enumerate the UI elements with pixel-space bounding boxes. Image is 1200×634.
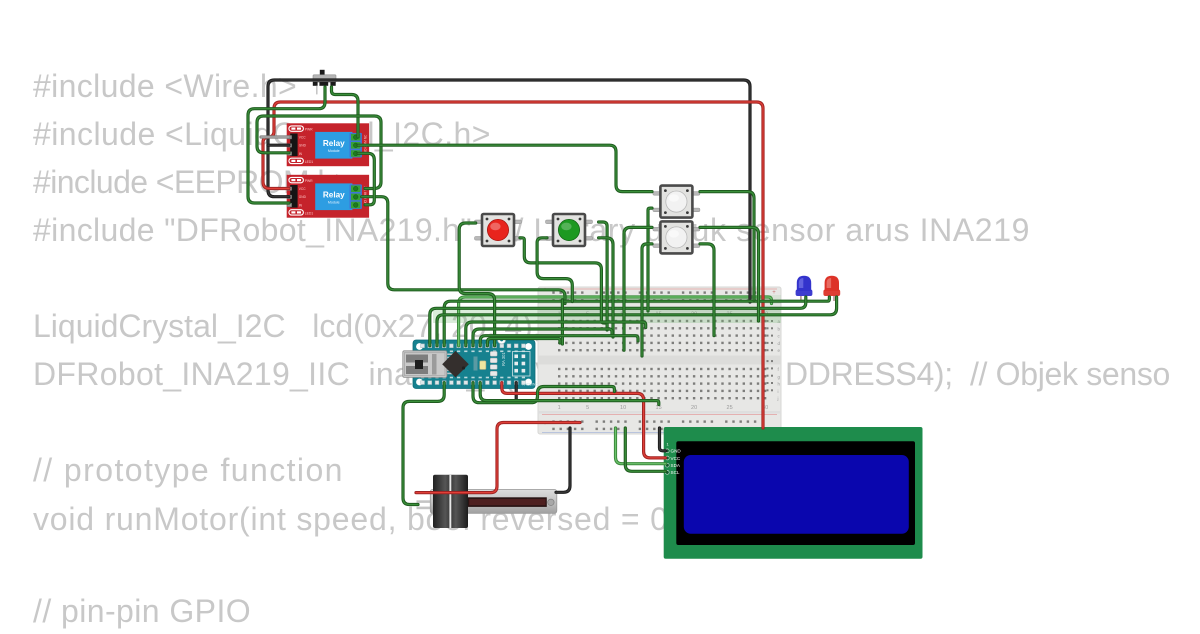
wire green relay1 IN loop to relay2 NO [257, 116, 381, 189]
wire green red-button left [459, 223, 494, 346]
wire green white-button2 left top [624, 227, 652, 350]
wire green relay1 COM to button1 [358, 145, 652, 191]
wire green switch right to relay1 NO [332, 87, 359, 137]
svg-text:VCC: VCC [671, 456, 681, 461]
wire gray relay1 VCC [261, 135, 289, 138]
svg-text:1: 1 [558, 405, 561, 411]
relay module K1 [287, 123, 369, 166]
wire green nano nest 2 [473, 329, 612, 346]
LED red LED2 [823, 276, 840, 301]
wire green nano to red LED anode [444, 297, 829, 346]
svg-text:Relay: Relay [323, 139, 345, 148]
pushbutton SW red [475, 214, 522, 246]
net highlight band 2 [538, 295, 781, 304]
wire green nano to pot left [403, 383, 444, 505]
svg-text:ARDUINO: ARDUINO [522, 383, 538, 387]
pushbutton SW white 1 [653, 186, 700, 218]
wire light-green nano to rail [459, 297, 772, 346]
svg-text:PWR: PWR [305, 179, 313, 183]
svg-text:10: 10 [620, 405, 626, 411]
wire black nano GND stub [515, 383, 518, 399]
svg-text:GND: GND [671, 449, 682, 454]
wire red nano 5V to LCD VCC [502, 383, 666, 458]
svg-text:RA 301: RA 301 [501, 352, 506, 366]
svg-text:LED1: LED1 [305, 212, 314, 216]
wire green white-button2 left bottom [642, 244, 652, 356]
svg-text:5: 5 [586, 405, 589, 411]
wire green green-button right bottom [599, 238, 613, 337]
wire green breadboard jumper [561, 300, 564, 344]
svg-text:Module: Module [328, 149, 340, 153]
svg-text:SDA: SDA [671, 463, 681, 468]
svg-text:Module: Module [328, 200, 340, 204]
wire green white-button1 right [700, 192, 754, 300]
svg-text:GND: GND [299, 144, 307, 148]
wire green nano nest 4 [487, 339, 560, 346]
wire green nano row f [473, 383, 614, 403]
relay module K2 [287, 175, 369, 218]
wire green white-button2 right top [700, 227, 759, 321]
wire black relay1 GND stub [268, 144, 289, 147]
svg-text:VCC: VCC [299, 136, 306, 140]
motor knob M1 [433, 475, 468, 528]
wire light-green LCD SDA [616, 428, 666, 464]
net highlight band [433, 308, 781, 323]
wire green nano row j [480, 383, 659, 405]
wire green nano nest 1 [466, 322, 646, 346]
wire green nano to red LED cathode [437, 297, 837, 346]
LED blue LED1 [796, 276, 813, 301]
svg-text:25: 25 [727, 405, 733, 411]
svg-text:j: j [777, 396, 779, 401]
Arduino Nano U1 [403, 336, 539, 389]
wire green red-button right [520, 238, 607, 323]
breadboard [538, 287, 781, 439]
wire black LCD GND [660, 428, 666, 451]
wire green white-button1 left [648, 208, 652, 311]
wire green green-button right top [599, 222, 608, 330]
slide switch SW1 [313, 70, 336, 95]
wire green switch mid to relay2 IN [248, 87, 325, 203]
svg-text:GND: GND [299, 195, 307, 199]
wire green nano to blue LED cathode [430, 297, 806, 346]
slide potentiometer RV1 [417, 489, 557, 513]
wire green relay2 COM to breadboard [362, 197, 565, 304]
pushbutton SW green [546, 214, 593, 246]
LCD 20x4 module LCD1 [664, 427, 923, 559]
svg-text:20: 20 [691, 405, 697, 411]
svg-text:LED1: LED1 [305, 160, 314, 164]
pushbutton SW white 2 [653, 221, 700, 253]
wire black switch-relay-breadboard [268, 80, 750, 302]
svg-text:i: i [778, 389, 779, 394]
wire green LCD SCL [625, 428, 665, 471]
svg-text:SCL: SCL [671, 470, 680, 475]
svg-text:VCC: VCC [299, 187, 306, 191]
wire red main power [263, 102, 763, 428]
wire green relay1 NC to relay2 NC [358, 153, 374, 205]
wire black pot right [556, 428, 570, 492]
svg-text:Relay: Relay [323, 190, 345, 199]
wire red pot supply [416, 423, 580, 493]
wire green white-button2 right [700, 244, 714, 336]
wire green green-button left [537, 238, 572, 302]
wire green nano nest 3 [480, 336, 638, 346]
svg-text:PWR: PWR [305, 128, 313, 132]
